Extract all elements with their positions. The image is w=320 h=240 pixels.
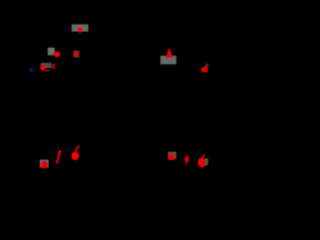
- atom N nitrogen (blue) left of D: [29, 68, 33, 73]
- atom label D: ester O halo box: [41, 63, 52, 68]
- atom L: carbonyl oxygen O with red bond (bottom right): [203, 154, 204, 158]
- wire ring right: [165, 82, 195, 115]
- bond C-O red wedge (chevron) right of D: [52, 64, 55, 69]
- wire ring A left: [20, 80, 50, 113]
- atom D oxygen O: [40, 64, 45, 70]
- wire chain bottom right: [171, 150, 210, 162]
- bond C-O red wedge above E: [166, 49, 173, 58]
- bond H: carbonyl C=O double bond (red, bottom left): [58, 147, 60, 149]
- atom label A: OCH3 halo box (top): [72, 24, 89, 31]
- atom label G: ester oxygen O with halo box (bottom left): [40, 160, 49, 168]
- wire chain top left: [48, 32, 80, 62]
- atom label J: ester oxygen O with halo box (bottom right): [168, 152, 176, 159]
- wire chain top right: [168, 60, 204, 70]
- bond K: carbonyl C=O double bond (red, bottom right): [186, 155, 189, 158]
- atom C oxygen O: [54, 51, 60, 57]
- halo fringe right of L: [205, 158, 208, 165]
- bond O-C red stub below A: [79, 32, 81, 33]
- atom N faint (blue-gray) above F: [206, 64, 209, 67]
- atom A oxygen O: [78, 27, 83, 32]
- wire chain bottom left: [44, 145, 80, 160]
- wire ring B left: [50, 80, 80, 113]
- bond O-C red stub right of D: [45, 69, 50, 72]
- atom label C: HO hydroxyl - H halo box: [48, 48, 55, 56]
- atom I: carbonyl oxygen O with red bond (bottom left): [75, 145, 79, 151]
- atom F: oxygen O with red wedge bond: [201, 65, 208, 72]
- bond red stub below G: [43, 168, 45, 170]
- atom label E: OCH3 halo box (right): [160, 56, 176, 65]
- atom B: ring oxygen O: [73, 51, 79, 58]
- skeleton bonds (black, molecule backbone): [20, 32, 210, 162]
